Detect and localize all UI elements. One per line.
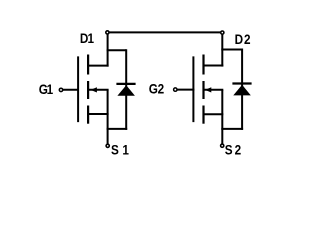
Q2 gate terminal circle G2 (174, 88, 177, 91)
Q2 source terminal circle S2 (221, 144, 224, 147)
wire: Q2 drain stub (203, 65, 224, 67)
wire: Q2 source stub (203, 113, 224, 115)
diode DB1 (Q1 body diode) (107, 49, 136, 130)
wire: Q2 gate lead (176, 89, 194, 91)
wire: Q1 body line (89, 89, 109, 91)
Q2 channel bottom segment (202, 106, 204, 124)
DB1 anode triangle (117, 85, 134, 96)
Q1 gate plate (77, 56, 79, 122)
transistor Q1 (left N-MOSFET) (59, 31, 109, 148)
svg-text:G2: G2 (149, 81, 165, 97)
Q1 drain terminal circle D1 (106, 31, 109, 34)
wire: DB2 bottom branch (221, 128, 243, 130)
Q1 channel bottom segment (87, 106, 89, 124)
wire: Q1 source stub (87, 113, 108, 115)
Q2 gate plate (192, 56, 194, 122)
wire: DB1 vertical (125, 49, 127, 130)
DB2 anode triangle (233, 85, 251, 96)
Q1 channel middle segment (87, 81, 89, 99)
wire: Q1 source rail (107, 90, 109, 144)
Q1 body arrow (91, 87, 97, 92)
Q2 drain terminal circle D2 (221, 31, 224, 34)
wire: Q1 gate lead (62, 89, 79, 91)
diode DB2 (Q2 body diode) (221, 49, 251, 130)
wire: Q2 drain rail (221, 32, 223, 66)
wire: Q1 drain stub (87, 65, 108, 67)
svg-text:D1: D1 (80, 30, 94, 46)
svg-text:D2: D2 (235, 31, 251, 47)
Q1 channel top segment (87, 55, 89, 75)
Q2 channel top segment (202, 55, 204, 75)
wire: DB1 bottom branch (107, 128, 128, 130)
wire: Q2 source rail (221, 90, 223, 144)
Q1 source terminal circle S1 (106, 144, 109, 147)
DB2 cathode bar (232, 82, 251, 84)
svg-text:G1: G1 (39, 81, 53, 97)
wire: top interconnect D1-D2 (108, 31, 223, 33)
wire: DB2 top branch (221, 49, 242, 51)
transistor Q2 (right N-MOSFET) (174, 31, 224, 147)
wire: Q2 body line (204, 89, 223, 91)
Q1 gate terminal circle G1 (59, 88, 62, 91)
DB1 cathode bar (116, 83, 135, 85)
Q2 channel middle segment (202, 81, 204, 99)
wire: DB2 vertical (241, 49, 243, 130)
wire: DB1 top branch (107, 49, 127, 51)
wire: Q1 drain rail (107, 32, 109, 66)
Q2 body arrow (205, 87, 211, 92)
